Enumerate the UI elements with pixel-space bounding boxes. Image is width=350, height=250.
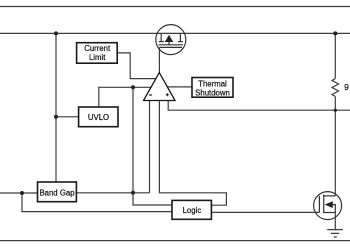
svg-text:Limit: Limit bbox=[89, 53, 106, 62]
svg-text:UVLO: UVLO bbox=[88, 113, 109, 122]
svg-text:9: 9 bbox=[344, 82, 349, 92]
svg-text:Shutdown: Shutdown bbox=[195, 88, 230, 97]
svg-text:Logic: Logic bbox=[183, 206, 202, 215]
svg-text:Current: Current bbox=[84, 44, 111, 53]
svg-text:Band Gap: Band Gap bbox=[39, 188, 75, 197]
svg-text:Thermal: Thermal bbox=[198, 79, 227, 88]
